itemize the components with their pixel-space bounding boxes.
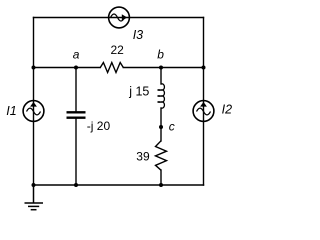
- wire: resistor 39 to bottom rail: [160, 170, 162, 185]
- svg-text:-j 20: -j 20: [87, 119, 111, 133]
- svg-text:b: b: [157, 48, 164, 62]
- wire: middle a-b leads: [34, 67, 101, 69]
- junction dot: bottom left (ground): [32, 183, 36, 187]
- inductor j 15: [158, 84, 165, 108]
- svg-text:I2: I2: [222, 103, 232, 117]
- wire: inductor to node c: [160, 108, 162, 141]
- resistor 22: [100, 63, 123, 73]
- wire: left rail: [33, 18, 35, 186]
- junction dot: left rail / middle wire: [32, 66, 36, 70]
- node b: [159, 66, 163, 70]
- svg-text:a: a: [73, 48, 80, 62]
- junction dot: right rail / middle wire: [202, 66, 206, 70]
- svg-text:I1: I1: [6, 104, 16, 118]
- wire: inductor branch top: [160, 68, 162, 85]
- junction dot: capacitor branch / bottom rail: [74, 183, 78, 187]
- node c: [159, 125, 163, 129]
- svg-text:I3: I3: [133, 28, 143, 42]
- AC current source I2: [193, 101, 214, 122]
- wire: right rail: [203, 18, 205, 186]
- wire: capacitor branch: [75, 68, 77, 112]
- ground: [25, 185, 44, 210]
- svg-text:39: 39: [136, 149, 150, 163]
- wire: bottom rail: [34, 184, 204, 186]
- svg-text:c: c: [169, 120, 175, 134]
- node a: [74, 66, 78, 70]
- svg-text:j 15: j 15: [128, 85, 149, 99]
- capacitor -j 20: [67, 112, 86, 117]
- AC current source I1: [23, 101, 44, 122]
- wire: top rail: [34, 17, 204, 19]
- resistor 39: [156, 141, 167, 170]
- junction dot: resistor branch / bottom rail: [159, 183, 163, 187]
- AC current source I3: [109, 7, 130, 28]
- svg-text:22: 22: [111, 43, 125, 57]
